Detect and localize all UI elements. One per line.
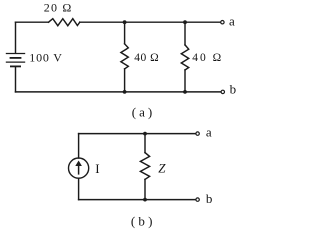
svg-text:I: I: [95, 161, 99, 176]
svg-text:b: b: [206, 191, 213, 206]
svg-text:a: a: [206, 124, 212, 139]
svg-text:40 Ω: 40 Ω: [134, 52, 159, 64]
svg-text:100 V: 100 V: [29, 50, 62, 64]
svg-text:Z: Z: [158, 161, 166, 176]
svg-text:40 Ω: 40 Ω: [192, 52, 223, 64]
svg-text:20 Ω: 20 Ω: [44, 0, 73, 14]
svg-text:(a): (a): [132, 104, 155, 119]
svg-text:(b): (b): [131, 214, 156, 229]
svg-text:b: b: [230, 82, 237, 97]
svg-text:a: a: [229, 13, 235, 28]
